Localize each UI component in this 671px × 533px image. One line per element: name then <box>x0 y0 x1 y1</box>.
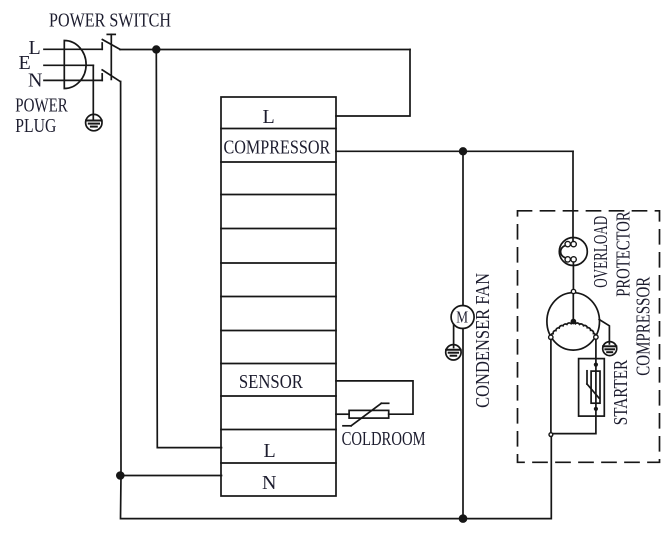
wire down to L terminal <box>336 50 410 117</box>
wire switch N drop <box>120 82 122 476</box>
svg-text:COMPRESSOR: COMPRESSOR <box>633 276 655 375</box>
wire bottom bus <box>121 437 552 519</box>
svg-text:M: M <box>456 308 468 327</box>
motor right terminal <box>594 335 598 339</box>
wire E lead <box>44 64 93 66</box>
svg-text:N: N <box>28 70 42 92</box>
node top junction <box>152 45 160 53</box>
wire overload to motor <box>572 262 574 289</box>
switch lower fixed contact <box>101 74 103 81</box>
wire L lead <box>44 48 102 50</box>
motor top terminal <box>571 289 575 293</box>
svg-text:COLDROOM: COLDROOM <box>342 428 426 450</box>
switch upper blade <box>102 40 120 50</box>
motor internal feed <box>572 294 574 320</box>
starter PTC element <box>591 371 600 403</box>
wire sensor loop <box>336 381 413 414</box>
svg-text:POWER SWITCH: POWER SWITCH <box>49 9 171 31</box>
ground (plug earth) <box>86 114 102 130</box>
svg-text:POWER: POWER <box>15 94 68 116</box>
svg-text:CONDENSER FAN: CONDENSER FAN <box>472 273 494 408</box>
starter top terminal dot <box>594 363 598 367</box>
svg-text:PLUG: PLUG <box>15 115 56 137</box>
node bottom junction <box>459 514 468 523</box>
wire N lead <box>44 79 102 81</box>
wire top bus from switch <box>120 49 410 51</box>
svg-text:COMPRESSOR: COMPRESSOR <box>224 137 331 159</box>
svg-text:L: L <box>263 106 275 128</box>
wire compressor row <box>336 150 573 152</box>
ground (motor case) <box>603 342 617 356</box>
svg-text:L: L <box>264 440 276 462</box>
svg-text:OVERLOAD: OVERLOAD <box>590 216 612 288</box>
wire fan ground stub <box>453 324 455 347</box>
wire motor case to ground <box>599 320 609 344</box>
wire sensor return <box>336 413 349 415</box>
node starter junction <box>549 433 553 437</box>
terminal strip dividers <box>221 128 336 130</box>
motor center point <box>571 320 575 324</box>
node compressor junction <box>459 147 467 155</box>
switch link T-bar <box>107 33 115 35</box>
overload protector <box>559 238 587 266</box>
node N junction <box>116 471 125 480</box>
wire condenser fan drop lower <box>462 329 464 519</box>
svg-text:PROTECTOR: PROTECTOR <box>613 211 635 297</box>
motor left terminal <box>549 335 553 339</box>
dashed unit box <box>518 211 660 462</box>
motor winding coil <box>551 323 596 338</box>
wire starter bottom loop <box>595 365 597 409</box>
terminal strip box <box>221 97 336 496</box>
svg-text:SENSOR: SENSOR <box>239 371 304 393</box>
wire N to terminal <box>121 475 222 477</box>
switch lower blade <box>102 70 120 82</box>
wire condenser fan drop upper <box>462 151 464 305</box>
coldroom thermistor <box>349 410 389 418</box>
condenser fan motor M <box>451 306 474 329</box>
wire motor left drop <box>550 340 552 433</box>
ground (condenser fan) <box>446 345 461 360</box>
starter bottom terminal dot <box>594 407 598 411</box>
wire L branch down <box>156 50 221 448</box>
compressor motor circle <box>547 293 600 350</box>
wire motor right to starter <box>595 339 597 364</box>
starter box <box>579 359 605 417</box>
wire E drop to ground <box>92 65 94 120</box>
svg-text:STARTER: STARTER <box>610 359 632 425</box>
switch upper fixed contact <box>101 43 103 49</box>
power plug body <box>64 41 86 89</box>
wire overload feed <box>572 151 574 241</box>
svg-text:N: N <box>262 472 276 494</box>
